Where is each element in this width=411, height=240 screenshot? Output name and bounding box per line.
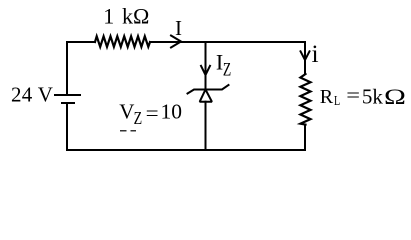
svg-text:i: i [312, 39, 319, 68]
svg-text:V: V [119, 100, 134, 124]
svg-text:R: R [320, 86, 334, 108]
svg-text:I: I [175, 16, 182, 40]
svg-text:L: L [334, 92, 340, 108]
svg-text:Ω: Ω [384, 85, 406, 110]
svg-text:24 V: 24 V [11, 82, 53, 106]
svg-text:1: 1 [103, 4, 114, 29]
svg-text:=: = [346, 85, 360, 107]
svg-text:I: I [216, 49, 223, 74]
svg-text:10: 10 [161, 100, 183, 124]
svg-text:Z: Z [223, 58, 231, 80]
svg-text:kΩ: kΩ [122, 4, 149, 29]
svg-text:=: = [146, 101, 159, 125]
svg-text:5k: 5k [362, 84, 384, 108]
svg-text:Z: Z [134, 110, 143, 129]
